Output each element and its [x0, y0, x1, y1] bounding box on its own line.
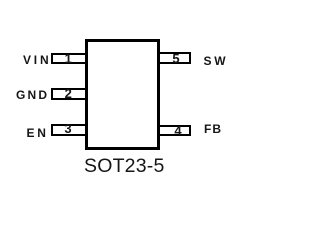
pin 1 box	[51, 53, 87, 64]
pin label FB	[204, 124, 222, 134]
pin 3 box	[51, 124, 87, 136]
pin 5 box	[158, 52, 191, 64]
pin 3 number	[54, 123, 83, 134]
pin label GND	[16, 90, 49, 100]
pin 1 number	[53, 53, 84, 64]
pin 2 number	[54, 88, 83, 99]
pin 5 number	[163, 53, 189, 64]
IC body U1 SOT23-5 package outline	[85, 39, 160, 151]
package name SOT23-5	[84, 159, 165, 173]
pin label VIN	[23, 55, 51, 65]
pin 4 number	[163, 125, 192, 136]
pin 4 box	[158, 125, 191, 137]
pin label EN	[27, 128, 49, 138]
pin 2 box	[51, 88, 87, 100]
pin label SW	[204, 56, 229, 66]
